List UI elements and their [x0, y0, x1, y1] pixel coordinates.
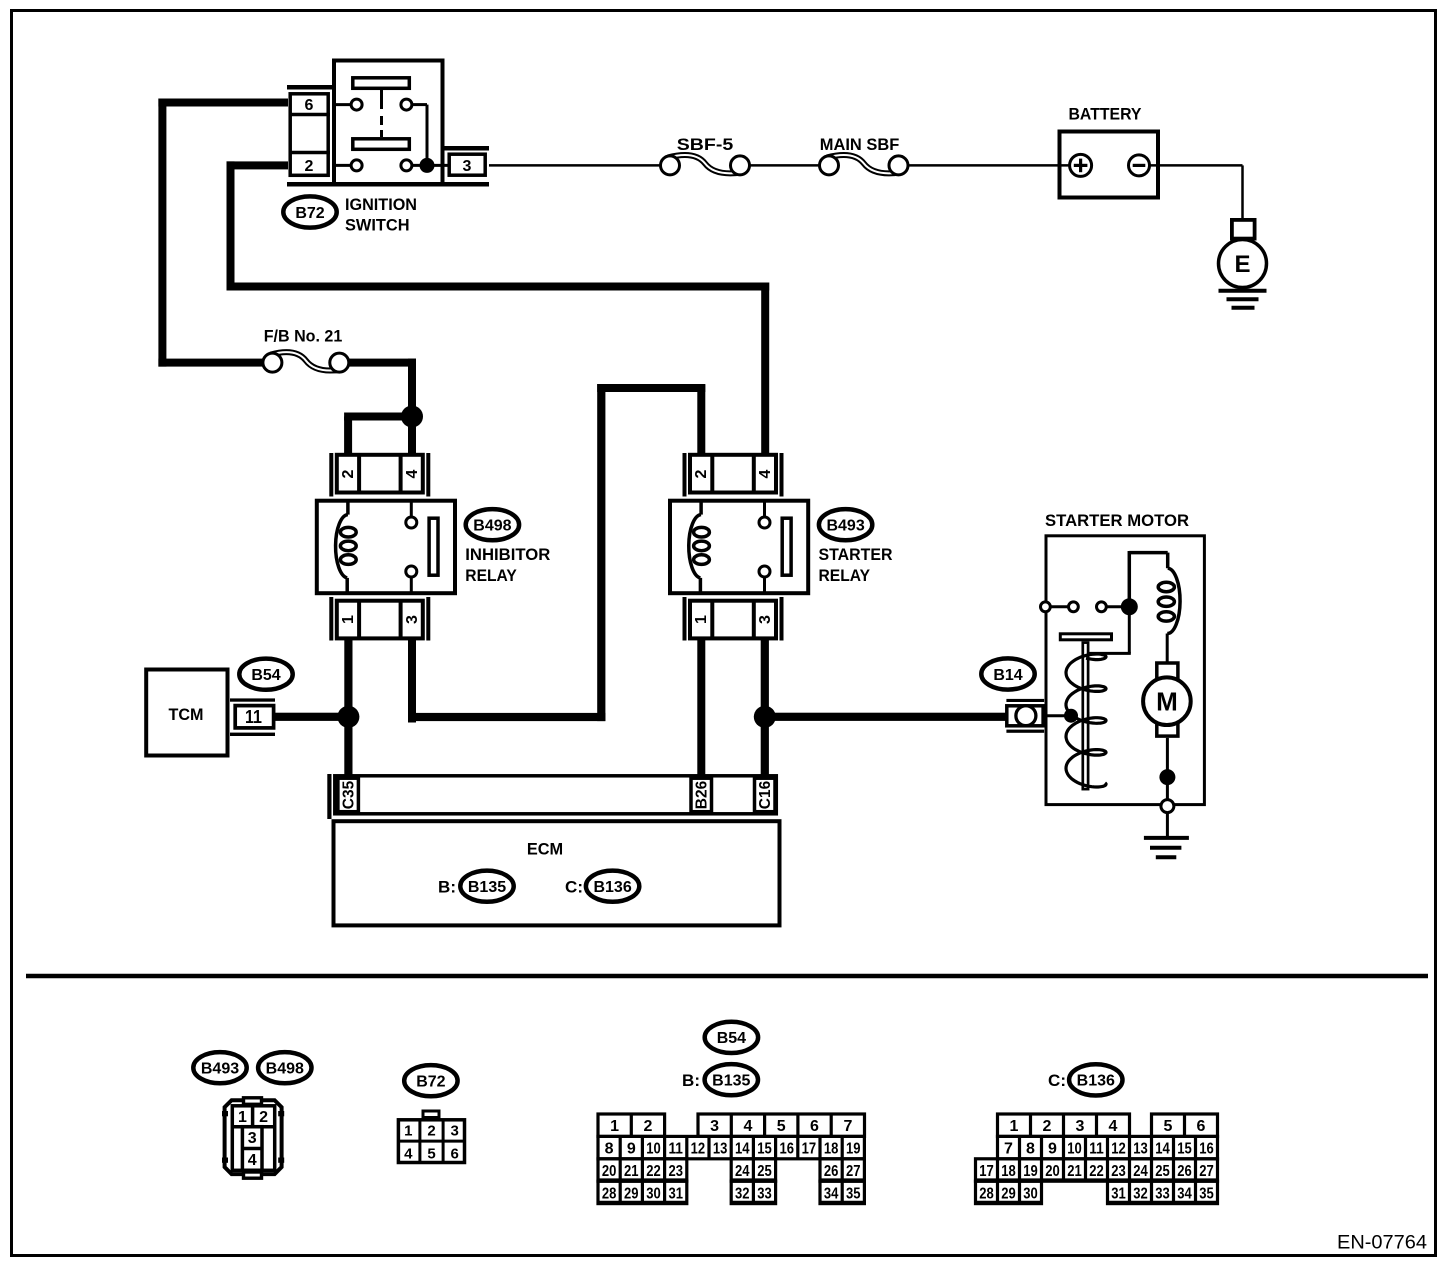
svg-text:18: 18 [1001, 1163, 1016, 1180]
svg-text:28: 28 [602, 1185, 617, 1202]
svg-text:30: 30 [646, 1185, 661, 1202]
svg-text:3: 3 [1076, 1118, 1085, 1135]
svg-text:2: 2 [1043, 1118, 1052, 1135]
svg-text:TCM: TCM [169, 705, 204, 724]
svg-text:3: 3 [710, 1118, 719, 1135]
svg-text:30: 30 [1023, 1185, 1038, 1202]
svg-text:SBF-5: SBF-5 [677, 135, 734, 154]
svg-text:3: 3 [757, 615, 774, 624]
svg-text:16: 16 [1199, 1141, 1214, 1158]
svg-text:B54: B54 [251, 667, 280, 684]
svg-text:1: 1 [404, 1123, 412, 1140]
svg-text:35: 35 [846, 1185, 861, 1202]
svg-text:B135: B135 [468, 879, 506, 896]
svg-text:21: 21 [1067, 1163, 1082, 1180]
svg-text:31: 31 [1111, 1185, 1126, 1202]
svg-text:17: 17 [979, 1163, 994, 1180]
svg-text:14: 14 [735, 1141, 750, 1158]
svg-text:24: 24 [1133, 1163, 1148, 1180]
svg-text:7: 7 [1004, 1141, 1013, 1158]
svg-text:19: 19 [1023, 1163, 1038, 1180]
svg-text:3: 3 [404, 615, 421, 624]
svg-text:13: 13 [713, 1141, 728, 1158]
svg-text:12: 12 [691, 1141, 706, 1158]
svg-text:19: 19 [846, 1141, 861, 1158]
svg-text:21: 21 [624, 1163, 639, 1180]
svg-text:4: 4 [248, 1152, 257, 1169]
svg-text:3: 3 [451, 1123, 459, 1140]
svg-text:B135: B135 [712, 1073, 750, 1090]
svg-text:2: 2 [259, 1109, 268, 1126]
svg-text:EN-07764: EN-07764 [1337, 1232, 1427, 1254]
svg-text:B498: B498 [473, 518, 511, 535]
svg-text:9: 9 [627, 1141, 636, 1158]
svg-text:B136: B136 [593, 879, 631, 896]
svg-text:2: 2 [427, 1123, 435, 1140]
svg-text:B493: B493 [826, 518, 864, 535]
svg-text:13: 13 [1133, 1141, 1148, 1158]
svg-text:7: 7 [843, 1118, 852, 1135]
svg-text:BATTERY: BATTERY [1069, 105, 1143, 124]
svg-text:15: 15 [757, 1141, 772, 1158]
svg-text:20: 20 [602, 1163, 617, 1180]
svg-text:32: 32 [1133, 1185, 1148, 1202]
svg-text:33: 33 [757, 1185, 772, 1202]
svg-text:26: 26 [1177, 1163, 1192, 1180]
svg-text:28: 28 [979, 1185, 994, 1202]
svg-text:B:: B: [682, 1071, 700, 1090]
svg-text:B493: B493 [201, 1061, 239, 1078]
svg-text:14: 14 [1155, 1141, 1170, 1158]
svg-text:B:: B: [438, 878, 456, 897]
svg-text:25: 25 [1155, 1163, 1170, 1180]
svg-text:B136: B136 [1077, 1073, 1115, 1090]
svg-text:10: 10 [1067, 1141, 1082, 1158]
svg-text:INHIBITOR: INHIBITOR [465, 545, 550, 564]
svg-text:29: 29 [624, 1185, 639, 1202]
svg-text:23: 23 [668, 1163, 683, 1180]
svg-text:1: 1 [1010, 1118, 1019, 1135]
svg-text:6: 6 [810, 1118, 819, 1135]
svg-text:2: 2 [305, 158, 314, 175]
svg-text:6: 6 [451, 1146, 459, 1163]
svg-text:4: 4 [743, 1118, 752, 1135]
svg-text:C:: C: [1048, 1071, 1066, 1090]
svg-text:23: 23 [1111, 1163, 1126, 1180]
svg-text:26: 26 [824, 1163, 839, 1180]
svg-text:1: 1 [693, 615, 710, 624]
svg-text:2: 2 [643, 1118, 652, 1135]
svg-text:5: 5 [777, 1118, 786, 1135]
svg-text:10: 10 [646, 1141, 661, 1158]
svg-text:1: 1 [340, 615, 357, 624]
svg-text:F/B No. 21: F/B No. 21 [264, 327, 343, 346]
svg-text:24: 24 [735, 1163, 750, 1180]
svg-text:12: 12 [1111, 1141, 1126, 1158]
svg-text:3: 3 [248, 1130, 257, 1147]
svg-text:29: 29 [1001, 1185, 1016, 1202]
svg-text:E: E [1234, 251, 1250, 278]
svg-text:5: 5 [427, 1146, 435, 1163]
svg-text:6: 6 [1197, 1118, 1206, 1135]
svg-text:20: 20 [1045, 1163, 1060, 1180]
svg-text:RELAY: RELAY [465, 566, 517, 585]
svg-text:B14: B14 [993, 667, 1022, 684]
svg-text:4: 4 [404, 469, 421, 478]
svg-text:B26: B26 [694, 780, 711, 809]
svg-text:18: 18 [824, 1141, 839, 1158]
svg-text:C35: C35 [341, 780, 358, 809]
svg-text:B72: B72 [295, 205, 324, 222]
svg-text:C16: C16 [757, 780, 774, 809]
svg-text:6: 6 [305, 97, 314, 114]
svg-text:17: 17 [802, 1141, 817, 1158]
svg-text:B498: B498 [266, 1061, 304, 1078]
svg-text:33: 33 [1155, 1185, 1170, 1202]
svg-text:34: 34 [824, 1185, 839, 1202]
svg-text:25: 25 [757, 1163, 772, 1180]
svg-text:4: 4 [757, 469, 774, 478]
svg-text:35: 35 [1199, 1185, 1214, 1202]
svg-text:B72: B72 [416, 1074, 445, 1091]
svg-text:M: M [1156, 687, 1178, 717]
svg-text:5: 5 [1164, 1118, 1173, 1135]
svg-text:16: 16 [779, 1141, 794, 1158]
svg-text:1: 1 [610, 1118, 619, 1135]
svg-text:22: 22 [1089, 1163, 1104, 1180]
svg-text:C:: C: [565, 878, 583, 897]
svg-text:9: 9 [1048, 1141, 1057, 1158]
svg-text:8: 8 [605, 1141, 614, 1158]
svg-text:34: 34 [1177, 1185, 1192, 1202]
svg-text:IGNITION: IGNITION [345, 195, 417, 214]
svg-text:11: 11 [668, 1141, 683, 1158]
svg-text:4: 4 [404, 1146, 413, 1163]
svg-text:27: 27 [1199, 1163, 1214, 1180]
svg-text:11: 11 [1089, 1141, 1104, 1158]
svg-text:27: 27 [846, 1163, 861, 1180]
svg-text:8: 8 [1026, 1141, 1035, 1158]
svg-text:1: 1 [238, 1109, 247, 1126]
svg-text:B54: B54 [717, 1030, 746, 1047]
svg-text:MAIN SBF: MAIN SBF [820, 135, 900, 154]
svg-text:ECM: ECM [527, 840, 563, 859]
svg-text:STARTER: STARTER [819, 545, 893, 564]
svg-text:3: 3 [463, 158, 472, 175]
svg-text:RELAY: RELAY [819, 566, 871, 585]
svg-text:STARTER MOTOR: STARTER MOTOR [1045, 511, 1189, 530]
svg-text:2: 2 [693, 469, 710, 478]
svg-text:32: 32 [735, 1185, 750, 1202]
svg-text:2: 2 [340, 469, 357, 478]
svg-text:15: 15 [1177, 1141, 1192, 1158]
svg-text:31: 31 [668, 1185, 683, 1202]
svg-text:22: 22 [646, 1163, 661, 1180]
svg-text:SWITCH: SWITCH [345, 216, 410, 235]
svg-text:4: 4 [1109, 1118, 1118, 1135]
svg-text:11: 11 [245, 707, 262, 727]
